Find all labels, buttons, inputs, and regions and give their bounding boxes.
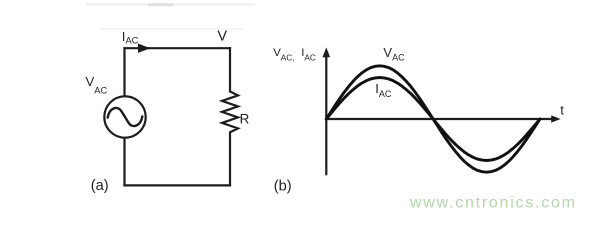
y-axis	[323, 47, 331, 175]
wire left lower	[123, 138, 125, 186]
svg-text:IAC: IAC	[375, 81, 392, 99]
svg-text:www.cntronics.com: www.cntronics.com	[409, 195, 577, 212]
wire right lower	[229, 132, 231, 187]
svg-text:(a): (a)	[91, 178, 109, 194]
svg-text:VAC: VAC	[383, 45, 405, 63]
svg-text:IAC: IAC	[301, 47, 316, 63]
wire right upper	[229, 47, 231, 92]
resistor R	[222, 92, 238, 133]
svg-text:IAC: IAC	[122, 29, 139, 46]
svg-text:(b): (b)	[274, 178, 292, 194]
AC source V1	[104, 96, 145, 137]
wire left upper	[123, 47, 125, 96]
svg-text:V: V	[217, 29, 227, 45]
curve V_AC	[326, 66, 540, 172]
erased watermark smudge top	[86, 3, 255, 29]
wire bottom	[123, 184, 231, 186]
svg-text:R: R	[240, 112, 250, 127]
svg-text:VAC,: VAC,	[273, 47, 294, 63]
wire top	[123, 47, 231, 49]
curve I_AC	[326, 78, 540, 161]
current direction arrow	[138, 44, 150, 53]
svg-text:t: t	[560, 103, 564, 118]
svg-text:VAC: VAC	[86, 74, 108, 96]
x-axis	[325, 115, 560, 122]
